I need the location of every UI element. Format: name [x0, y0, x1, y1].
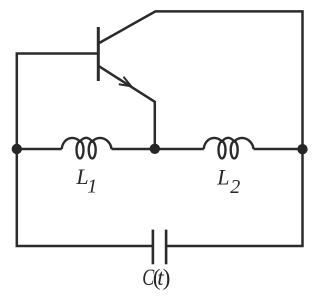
svg-text:2: 2 — [230, 176, 240, 198]
svg-text:L: L — [216, 165, 229, 190]
svg-text:): ) — [163, 265, 171, 290]
svg-text:1: 1 — [87, 176, 97, 198]
